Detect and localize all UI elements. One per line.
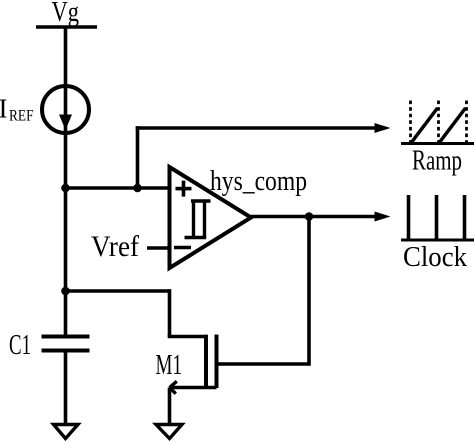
svg-text:I: I — [0, 94, 8, 124]
svg-text:Clock: Clock — [403, 242, 467, 273]
svg-text:M1: M1 — [156, 349, 183, 381]
svg-text:REF: REF — [9, 108, 34, 125]
transistor M1 — [206, 335, 217, 389]
op-amp U1 hysteresis comparator body — [170, 167, 252, 268]
ground C1 — [54, 425, 79, 439]
ramp waveform icon — [401, 101, 474, 144]
svg-text:Vg: Vg — [52, 0, 80, 28]
wire M1 drain to output node — [217, 215, 310, 366]
pin + (non-inverting input mark) — [176, 181, 192, 197]
wire source to ground — [168, 388, 172, 425]
junction on + input wire — [133, 184, 142, 193]
wire junction up to ramp output line — [136, 126, 140, 188]
ground M1 source — [156, 425, 182, 439]
svg-text:C1: C1 — [9, 330, 31, 361]
supply rail Vg — [36, 25, 97, 29]
wire comparator output to clock arrow — [251, 212, 391, 222]
wire ramp output arrow — [136, 123, 391, 133]
svg-text:Vref: Vref — [91, 230, 139, 263]
svg-text:Ramp: Ramp — [412, 146, 462, 177]
hysteresis symbol inside comparator — [185, 201, 211, 238]
clock waveform icon — [401, 195, 474, 240]
wire node A to comparator + input — [66, 186, 170, 190]
wire Vg rail to C1 top (main left vertical) — [64, 27, 68, 337]
label IREF — [0, 94, 34, 125]
node B junction (cap node) — [61, 287, 70, 296]
node A junction (ramp node on left wire) — [61, 184, 70, 193]
wire M1 source with arrow — [170, 381, 217, 393]
current source IREF — [42, 86, 89, 133]
node output junction — [305, 212, 314, 221]
wire C1 bottom to ground — [64, 351, 68, 425]
svg-text:hys_comp: hys_comp — [210, 166, 307, 197]
capacitor C1 — [42, 337, 90, 351]
wire node B to gate riser — [66, 289, 170, 293]
wire to gate bar — [168, 335, 206, 339]
wire Vref to inverting input — [147, 246, 170, 250]
pin - (inverting input mark) — [174, 246, 191, 250]
wire gate riser down — [168, 289, 172, 336]
